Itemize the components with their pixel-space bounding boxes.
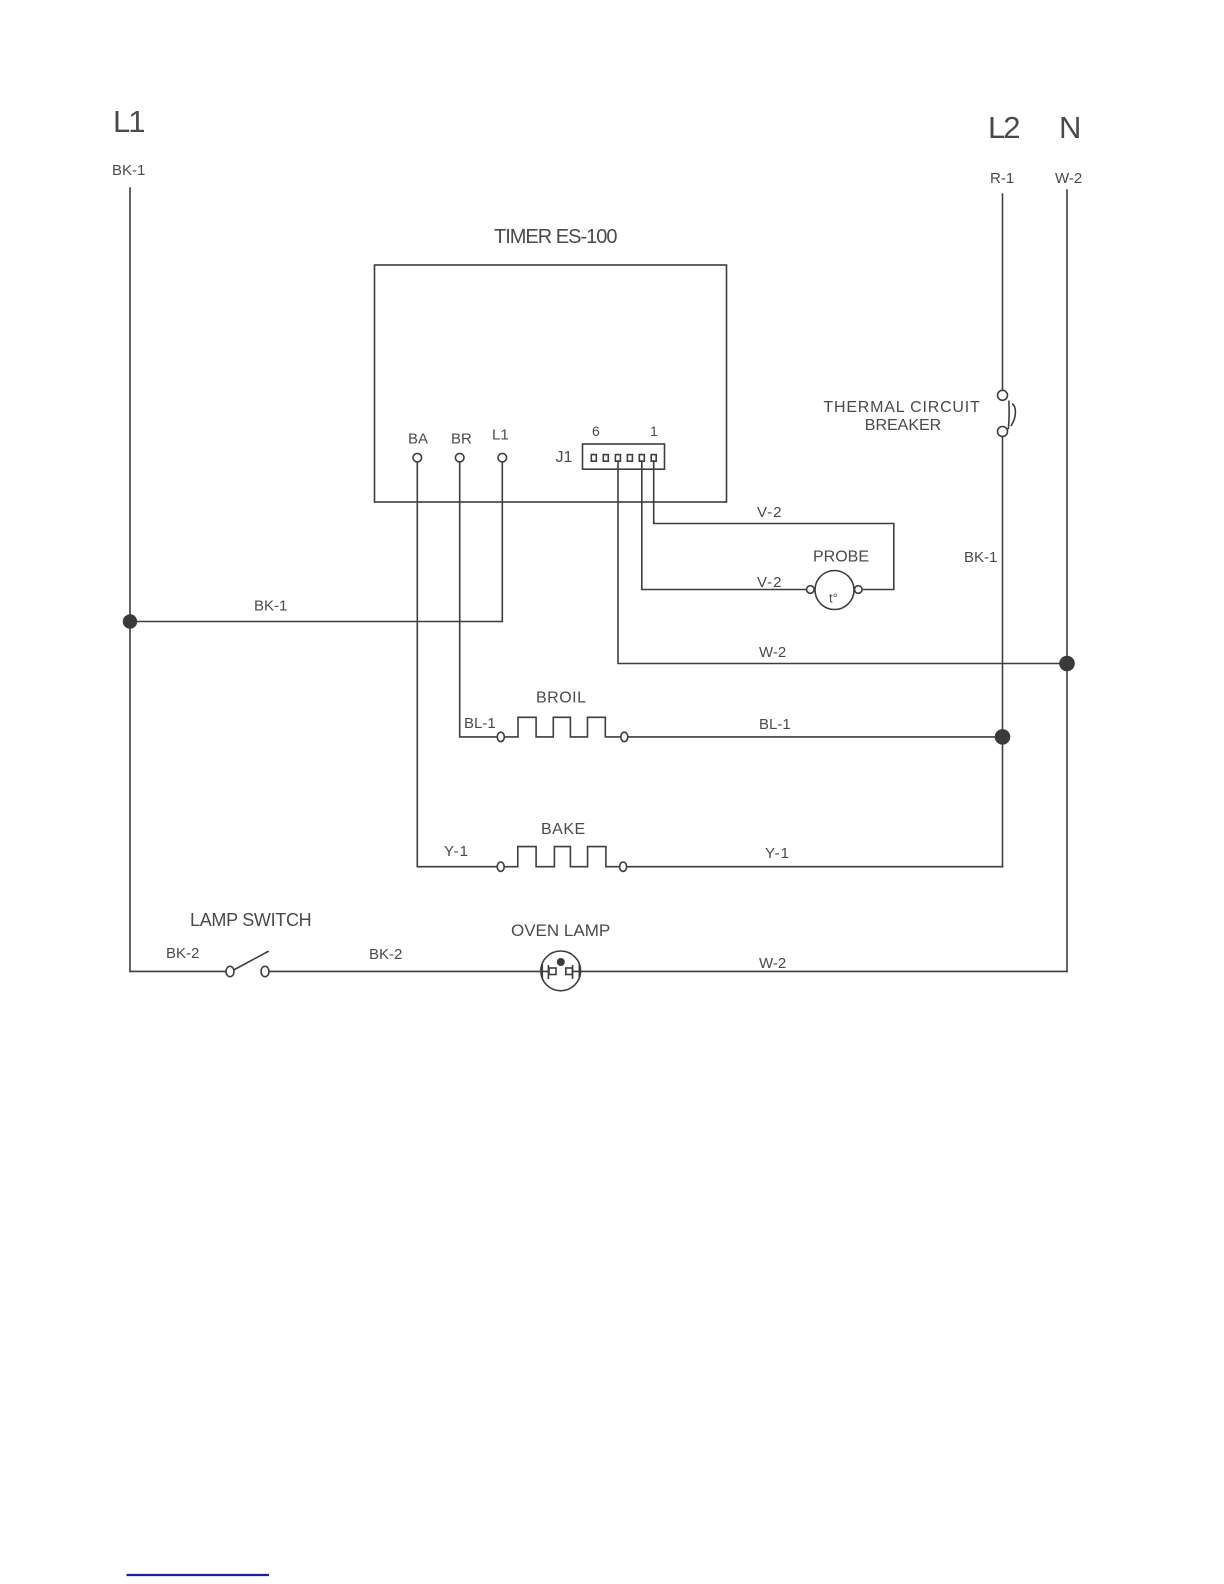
timer U1 box [375,265,727,502]
terminal BR [451,431,472,463]
svg-text:6: 6 [592,423,600,439]
svg-text:W-2: W-2 [1055,170,1082,187]
svg-text:J1: J1 [556,449,573,466]
svg-text:V-2: V-2 [757,504,783,521]
junction dot BROIL on L2 [995,729,1011,745]
wire L2 vertical lower [1002,437,1004,867]
heater BAKE [444,821,1003,871]
svg-text:1: 1 [650,423,658,439]
svg-text:BK-1: BK-1 [112,162,145,179]
lamp switch S1 [130,910,548,977]
svg-text:L2: L2 [988,110,1019,145]
heater BROIL [464,690,995,742]
svg-text:BA: BA [408,431,428,448]
svg-text:LAMP SWITCH: LAMP SWITCH [190,910,311,930]
svg-text:OVEN LAMP: OVEN LAMP [511,921,610,940]
terminal BA [408,431,428,463]
svg-text:W-2: W-2 [759,644,786,661]
oven lamp DS1 [511,921,610,991]
connector J1 [556,423,665,469]
svg-text:L1: L1 [113,104,144,139]
svg-text:BL-1: BL-1 [464,715,496,732]
terminal L1 [492,427,509,463]
svg-text:Y-1: Y-1 [444,843,469,860]
svg-text:TIMER ES-100: TIMER ES-100 [494,226,617,248]
svg-text:BL-1: BL-1 [759,716,791,733]
svg-text:BK-2: BK-2 [369,946,402,963]
svg-text:PROBE: PROBE [813,549,869,566]
svg-text:L1: L1 [492,427,509,444]
svg-text:BAKE: BAKE [541,821,586,838]
wire BA to BAKE [417,462,497,867]
probe RT1 [807,549,870,610]
footer rule [127,1574,270,1576]
wire L1 vertical [129,188,131,971]
svg-text:BR: BR [451,431,472,448]
wire J1 pin4 W-2 to N [618,461,1060,664]
svg-text:R-1: R-1 [990,170,1014,187]
svg-text:BK-1: BK-1 [964,549,997,566]
wire N vertical [1066,190,1068,971]
thermal circuit breaker CB1 [823,390,1015,436]
wire L2 vertical upper [1002,194,1004,390]
wire J1 pin2 V-2 to probe left [642,461,807,590]
wire BK-1 horizontal [130,621,502,623]
svg-text:V-2: V-2 [757,574,783,591]
wire J1 pin1 V-2 to probe right [654,461,894,590]
junction dot W-2 on N [1059,656,1075,672]
wire oven lamp to N [573,970,1067,972]
svg-text:t°: t° [829,591,838,606]
svg-text:W-2: W-2 [759,955,786,972]
svg-text:N: N [1059,110,1079,145]
svg-text:THERMAL CIRCUIT: THERMAL CIRCUIT [823,399,980,416]
wire BR to BROIL [460,462,497,737]
wire L1 terminal down [501,462,503,622]
svg-text:Y-1: Y-1 [765,845,790,862]
junction dot BK-1 on L1 [123,614,137,628]
svg-text:BK-2: BK-2 [166,945,199,962]
svg-text:BREAKER: BREAKER [865,417,941,434]
svg-text:BROIL: BROIL [536,690,587,707]
svg-text:BK-1: BK-1 [254,598,287,615]
